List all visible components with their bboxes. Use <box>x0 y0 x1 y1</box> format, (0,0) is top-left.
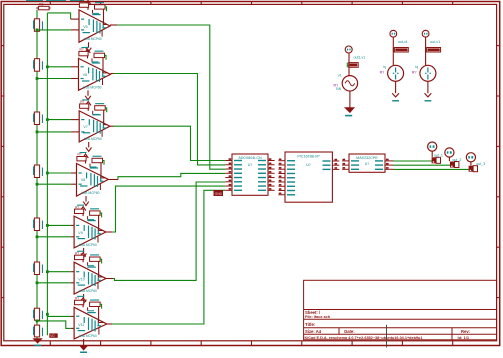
op-amp U2B pin labels <box>79 167 104 195</box>
label I2 value <box>412 65 418 75</box>
power VCC stub U1A <box>85 0 91 10</box>
top edge label dashes <box>26 0 84 2</box>
wire input tap U1B+ <box>46 65 79 68</box>
resistor Rf1b <box>95 2 106 9</box>
label out1_v1 <box>354 56 366 60</box>
op-amp U4A <box>74 307 107 339</box>
port circle V1 <box>345 46 352 53</box>
wire feedback U1B <box>92 55 108 73</box>
svg-text:V9: V9 <box>78 231 82 235</box>
svg-text:VD: VD <box>50 334 55 338</box>
title block version row <box>305 335 470 340</box>
power VCC stub U2B <box>83 154 89 164</box>
resistor Rf7b <box>90 300 101 307</box>
power flag GND on pin8 <box>214 190 224 196</box>
svg-text:R2: R2 <box>39 3 43 7</box>
resistor R6 <box>33 165 43 178</box>
IC U6 title <box>297 154 320 167</box>
power VEE stub U2A <box>86 142 92 152</box>
svg-text:Date:: Date: <box>344 329 354 334</box>
wire output net out_1 <box>394 160 432 162</box>
voltage source V1 <box>342 76 357 91</box>
resistor R3 <box>33 19 43 32</box>
power VCC stub U2A <box>85 101 91 111</box>
IC U5 pin name dashes <box>234 160 266 191</box>
wire input tap U1B- <box>36 77 79 80</box>
svg-text:U4A MCP60: U4A MCP60 <box>79 334 97 338</box>
IC U6 box <box>285 152 332 202</box>
wire I1 bottom <box>395 81 397 93</box>
net flag V1 <box>347 63 358 68</box>
resistor Rf6b <box>90 254 101 261</box>
title block title text <box>305 322 316 327</box>
op-amp U2A pin labels <box>81 114 106 141</box>
svg-text:PIC16F88-I/P: PIC16F88-I/P <box>297 154 320 158</box>
wire output net out_2 <box>394 164 451 166</box>
svg-text:V5: V5 <box>83 25 87 29</box>
wire I2 bottom <box>427 81 429 93</box>
title block box <box>304 280 497 340</box>
wire ladder bus B <box>46 13 49 335</box>
wire feedback U4A <box>88 304 105 322</box>
op-amp U1B pin labels <box>81 62 106 89</box>
power VCC stub U1B <box>85 49 91 59</box>
label out I2 <box>430 40 440 44</box>
wire ladder bus A <box>36 10 38 339</box>
resistor R4 <box>33 59 43 71</box>
svg-text:R?: R? <box>75 251 79 255</box>
svg-text:GND: GND <box>215 192 223 196</box>
svg-text:out1,v1: out1,v1 <box>354 56 366 60</box>
power VCC stub U3A <box>80 207 86 217</box>
svg-text:U1B MCP60: U1B MCP60 <box>83 85 101 89</box>
svg-text:Title:: Title: <box>305 322 316 327</box>
net flag I2 <box>426 48 441 53</box>
connector out_3 <box>466 153 485 172</box>
wire I2 top <box>425 37 427 65</box>
svg-text:R?: R? <box>380 71 385 75</box>
svg-text:out_2: out_2 <box>452 158 461 162</box>
resistor Rf2a <box>79 47 89 56</box>
power VEE stub U2B <box>83 196 89 206</box>
op-amp U4A pin labels <box>76 312 101 338</box>
svg-text:v1: v1 <box>338 74 342 78</box>
current source I2 <box>420 65 436 81</box>
wire output U3A <box>106 186 225 232</box>
net flag I1 <box>393 48 408 53</box>
wire input tap U2A- <box>36 131 80 134</box>
power VEE stub U1B <box>85 90 91 100</box>
svg-text:File: iface.sch: File: iface.sch <box>305 315 331 319</box>
svg-text:U?: U? <box>365 162 370 166</box>
wire V1 top <box>348 53 350 76</box>
svg-text:V8: V8 <box>81 178 85 182</box>
wire output net out_3 <box>394 168 469 170</box>
wire input tap U2A+ <box>46 118 79 121</box>
wire input tap U4A- <box>36 320 75 329</box>
svg-text:V6: V6 <box>83 73 87 77</box>
op-amp U3A <box>74 216 106 248</box>
svg-text:Iq: Iq <box>383 65 386 69</box>
resistor R2 (top) <box>36 3 50 10</box>
op-amp U3A pin labels <box>76 220 101 247</box>
resistor R9 <box>33 308 43 320</box>
wire input tap U4A+ <box>47 315 74 317</box>
label I1 value <box>380 65 386 75</box>
power VEE stub U3B <box>81 294 87 304</box>
svg-text:ADC0804LCN: ADC0804LCN <box>238 156 262 160</box>
svg-text:U2A MCP60: U2A MCP60 <box>84 137 102 141</box>
title block sheet text <box>305 310 331 319</box>
svg-text:out,v1: out,v1 <box>398 40 408 44</box>
svg-text:U?: U? <box>306 163 311 167</box>
wire input tap U3B+ <box>46 270 74 273</box>
title block size row <box>305 329 470 334</box>
current source I1 <box>388 65 404 81</box>
svg-text:V11: V11 <box>78 323 84 327</box>
resistor Rf4a <box>77 152 87 161</box>
svg-text:KiCad E.D.A. eeschema 4.0.7+e: KiCad E.D.A. eeschema 4.0.7+e2-6352~38~u… <box>305 336 423 340</box>
power VEE stub U4A <box>80 339 87 353</box>
label V1 value <box>334 74 342 92</box>
svg-text:U2B MCP60: U2B MCP60 <box>81 191 99 195</box>
wire input tap U1A- <box>36 29 79 32</box>
svg-text:U3B MCP60: U3B MCP60 <box>79 289 97 293</box>
svg-text:Size: A4: Size: A4 <box>305 329 322 334</box>
wire V1 bottom <box>349 91 351 108</box>
IC U6 pin name dashes <box>287 160 331 195</box>
op-amp U2A <box>79 111 110 142</box>
wire feedback U3B <box>88 259 104 277</box>
op-amp U3B pin labels <box>76 267 101 294</box>
power symbol V1 gnd <box>345 108 354 117</box>
IC U6 pins <box>278 159 339 195</box>
IC U5 box <box>232 154 268 195</box>
wire output U2A <box>110 126 225 160</box>
power flag bottom left <box>49 333 57 338</box>
resistor Rf3a <box>80 99 90 108</box>
svg-text:R?: R? <box>75 297 79 301</box>
IC U7 pin name dashes <box>351 160 383 170</box>
wire output U3B <box>106 182 225 280</box>
svg-text:R?: R? <box>80 0 84 3</box>
wire output U1A <box>110 25 225 169</box>
svg-text:Iq: Iq <box>415 65 418 69</box>
resistor R5 <box>33 112 43 125</box>
wire output U4A <box>107 190 226 324</box>
ground ladder bottom <box>34 339 42 346</box>
svg-text:V7: V7 <box>83 125 87 129</box>
wire input tap U3B- <box>36 281 75 284</box>
power VEE stub U1A <box>86 42 92 52</box>
svg-text:U1A MCP60: U1A MCP60 <box>84 37 102 41</box>
svg-text:R?: R? <box>412 71 417 75</box>
svg-text:R?: R? <box>78 153 82 157</box>
op-amp U1B <box>79 58 111 90</box>
wire feedback U3A <box>88 213 104 230</box>
wire feedback U1A <box>93 7 108 25</box>
IC U5 pins <box>225 158 274 190</box>
IC U7 pins <box>342 159 393 170</box>
power VEE stub U3A <box>81 248 87 258</box>
svg-text:out_1: out_1 <box>434 153 443 157</box>
power VCC stub U3B <box>80 253 86 263</box>
svg-text:R?: R? <box>80 100 84 104</box>
resistor Rf5a <box>75 205 85 214</box>
cursor mark <box>386 325 388 348</box>
svg-text:Rev:: Rev: <box>461 329 470 334</box>
svg-text:U?: U? <box>248 163 253 167</box>
resistor Rf1a <box>79 0 89 7</box>
resistor R7 <box>33 218 43 231</box>
IC U7 box <box>349 154 385 172</box>
op-amp U2B <box>77 164 109 197</box>
svg-text:U3A MCP60: U3A MCP60 <box>79 243 97 247</box>
svg-text:MAX232CPE: MAX232CPE <box>356 156 378 160</box>
resistor Rf5b <box>90 208 101 215</box>
power symbol I2 gnd <box>425 93 432 101</box>
resistor Rf6a <box>75 251 85 260</box>
svg-text:R?: R? <box>75 205 79 209</box>
IC U7 title <box>356 156 378 166</box>
wire input tap U1A+ <box>47 13 79 19</box>
svg-text:SIN: SIN <box>336 87 342 91</box>
svg-text:Id: 1/1: Id: 1/1 <box>458 335 470 340</box>
resistor R10 <box>33 325 43 337</box>
wire output U2B <box>108 173 225 179</box>
svg-text:out,v1: out,v1 <box>430 40 440 44</box>
wire feedback U2B <box>90 161 106 178</box>
wire input tap U2B+ <box>46 172 77 175</box>
wire input tap U2B- <box>36 183 77 186</box>
port circle I2 <box>422 30 429 37</box>
wire output U1B <box>110 74 225 165</box>
connector out_1 <box>428 142 443 163</box>
label out I1 <box>398 40 408 44</box>
op-amp U1A <box>79 10 110 42</box>
svg-text:V10: V10 <box>78 277 84 281</box>
port circle I1 <box>390 30 397 37</box>
wire feedback U2A <box>93 108 108 125</box>
resistor R8 <box>33 262 43 275</box>
power VCC stub U4A <box>80 298 86 308</box>
wire input tap U3A- <box>36 235 75 238</box>
resistor Rf3b <box>95 103 106 110</box>
resistor Rf7a <box>75 296 85 305</box>
resistor Rf2b <box>94 51 105 58</box>
op-amp U3B <box>74 262 106 294</box>
IC U5 title <box>238 156 262 167</box>
resistor Rf4b <box>92 156 103 163</box>
connector out_2 <box>445 148 462 168</box>
svg-text:out_3: out_3 <box>476 162 485 166</box>
power symbol I1 gnd <box>392 93 399 101</box>
op-amp U1A pin labels <box>81 14 106 41</box>
svg-text:R?: R? <box>80 48 84 52</box>
wire I1 top <box>392 37 394 65</box>
wire input tap U3A+ <box>46 224 74 227</box>
